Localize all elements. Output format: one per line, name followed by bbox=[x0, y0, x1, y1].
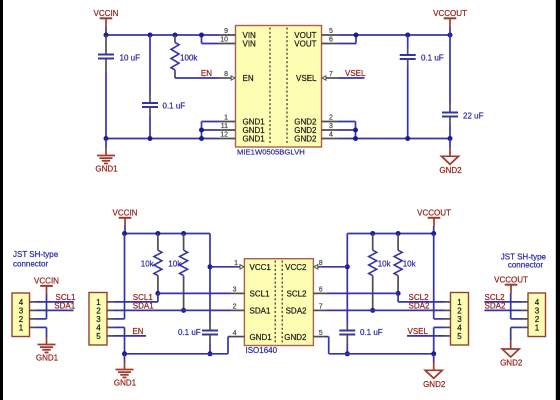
wire VCCOUT into pin3 bbox=[434, 318, 444, 320]
junction C6 gnd rail bbox=[345, 351, 350, 356]
U2 isolation dashed line right bbox=[281, 261, 283, 344]
wire SCL2 from chip bbox=[326, 292, 398, 294]
U1 pin 12 stub bbox=[219, 132, 236, 139]
U2 isolation dashed line left bbox=[274, 261, 276, 344]
J4 pin 5 stub bbox=[444, 335, 451, 337]
svg-text:VIN: VIN bbox=[243, 40, 257, 49]
svg-text:8: 8 bbox=[224, 71, 228, 78]
U1 pin name EN left y=81.2 bbox=[243, 74, 254, 83]
svg-text:6: 6 bbox=[329, 37, 333, 44]
wire VCCOUT vertical to pin3 bbox=[433, 234, 435, 319]
capacitor C5 0.1 uF bbox=[178, 322, 218, 344]
svg-text:SDA1: SDA1 bbox=[250, 307, 271, 316]
ground GND1 JST-left bbox=[36, 337, 59, 363]
J1 pin 3 stub bbox=[30, 309, 37, 311]
connector J3 JST body bbox=[528, 293, 546, 337]
capacitor C3 0.1 uF bbox=[400, 47, 444, 68]
svg-text:100k: 100k bbox=[180, 54, 198, 63]
J4 pin 1 number bbox=[457, 298, 462, 307]
junction vcc rail R2 bbox=[155, 231, 160, 236]
U1 pin 8 direction arrow bbox=[231, 76, 235, 80]
svg-text:GND1: GND1 bbox=[250, 333, 273, 342]
U2 pin 2 stub bbox=[231, 304, 244, 311]
svg-text:EN: EN bbox=[243, 74, 254, 83]
net label SDA1 mid bbox=[133, 302, 154, 311]
net label SDA2 JST bbox=[485, 302, 506, 311]
wire VSEL net bbox=[339, 77, 365, 79]
wire U1 right gnd bus vertical bbox=[355, 122, 357, 139]
U2 pin 8 arrow bbox=[314, 265, 318, 269]
U1 part name MIE1W0505BGLVH bbox=[237, 148, 305, 157]
U1 pin name VIN left y=38 bbox=[243, 31, 257, 40]
wire EN net bottom bbox=[114, 335, 147, 337]
connector J1 JST body bbox=[12, 293, 30, 337]
U1 pin 6 stub bbox=[322, 37, 339, 44]
wire SDA2 row bbox=[326, 309, 444, 311]
svg-text:10: 10 bbox=[220, 37, 228, 44]
wire VCCIN JST drop bbox=[46, 294, 48, 319]
U1 pin 5 stub bbox=[322, 28, 339, 35]
svg-text:SCL2: SCL2 bbox=[286, 290, 307, 299]
svg-text:GND2: GND2 bbox=[284, 333, 307, 342]
J4 pin 3 number bbox=[457, 315, 462, 324]
svg-text:SDA2: SDA2 bbox=[409, 302, 430, 311]
wire C4 bottom to gnd rail bbox=[449, 125, 451, 139]
U2 pin name VCC2 bbox=[285, 263, 307, 272]
U2 pin name VCC1 bbox=[250, 263, 272, 272]
U1 pin name VIN left y=46.5 bbox=[243, 40, 257, 49]
power flag VCCIN top bbox=[94, 9, 119, 27]
wire GND1 rail bbox=[106, 138, 219, 140]
resistor R1 100k bbox=[171, 35, 198, 78]
U2 pin name GND1 bbox=[250, 333, 273, 342]
wire GND1 bottom stub blue bbox=[124, 354, 126, 362]
wire chip GND1 riser bbox=[227, 337, 229, 354]
resistor R5 10k bbox=[394, 234, 416, 294]
junction vcc rail at VCCOUT drop bbox=[431, 231, 436, 236]
J1 pin 1 number bbox=[19, 323, 24, 332]
wire C5 bottom bbox=[209, 344, 211, 354]
svg-text:GND1: GND1 bbox=[114, 379, 137, 388]
J3 pin 4 number bbox=[535, 298, 540, 307]
U1 pin 1 stub bbox=[219, 115, 236, 122]
U1 pin name VOUT right y=38 bbox=[294, 31, 316, 40]
connector J2 5-pin body bbox=[89, 293, 107, 346]
U1 pin name VOUT right y=46.5 bbox=[294, 40, 316, 49]
right black border bar bbox=[556, 0, 560, 400]
svg-text:EN: EN bbox=[201, 69, 212, 78]
U1 pin 2 stub bbox=[322, 115, 339, 122]
svg-text:VCCIN: VCCIN bbox=[94, 9, 119, 18]
power flag VCCOUT bottom bbox=[417, 209, 451, 227]
wire chip GND1 horizontal bbox=[228, 336, 231, 338]
wire U1 pin3 gnd horizontal bbox=[338, 129, 356, 131]
wire J1 pin1 gnd bbox=[36, 326, 47, 328]
svg-text:SDA2: SDA2 bbox=[485, 302, 506, 311]
svg-text:0.1 uF: 0.1 uF bbox=[360, 328, 383, 337]
J3 pin 4 stub bbox=[522, 301, 529, 303]
power flag VCCIN JST-left bbox=[34, 277, 59, 295]
wire J4 pin4 gnd horizontal bbox=[434, 326, 444, 328]
ground GND1 bottom-middle bbox=[114, 362, 137, 388]
wire GND1 stub blue bbox=[105, 139, 107, 149]
power flag VCCIN bottom bbox=[113, 209, 138, 227]
U2 pin 5 stub bbox=[313, 330, 323, 337]
wire SCL2 jog vertical bbox=[397, 293, 399, 302]
svg-text:1: 1 bbox=[535, 323, 540, 332]
connector J4 5-pin body bbox=[451, 293, 469, 346]
junction C5 gnd rail bbox=[208, 351, 213, 356]
J4 pin 2 number bbox=[457, 306, 462, 315]
J1 pin 4 stub bbox=[30, 301, 37, 303]
J4 pin 5 number bbox=[457, 332, 462, 341]
J2 pin 2 stub bbox=[107, 309, 114, 311]
power flag VCCOUT JST-right bbox=[494, 275, 528, 293]
junction gnd rail C3 bbox=[405, 136, 410, 141]
junction gnd bus rail bbox=[199, 136, 204, 141]
U1 pin 9 stub bbox=[219, 28, 236, 35]
svg-text:VCCIN: VCCIN bbox=[34, 277, 59, 286]
capacitor C2 0.1 uF bbox=[142, 95, 185, 117]
wire C2 bottom to gnd rail bbox=[149, 116, 151, 139]
wire SDA1 row bbox=[114, 309, 232, 311]
resistor R4 10k bbox=[369, 234, 392, 311]
resistor R2 10k bbox=[141, 234, 162, 294]
svg-text:JST SH-type: JST SH-type bbox=[13, 250, 59, 259]
net label SCL1 mid bbox=[133, 293, 154, 302]
svg-text:VOUT: VOUT bbox=[294, 40, 316, 49]
wire right rail corner down bbox=[346, 234, 348, 322]
svg-text:SCL1: SCL1 bbox=[250, 290, 271, 299]
svg-text:1: 1 bbox=[224, 115, 228, 122]
net label SDA1 JST bbox=[54, 302, 75, 311]
svg-text:10k: 10k bbox=[378, 259, 392, 268]
ground GND1 top-left bbox=[95, 148, 118, 174]
junction right gnd bus rail bbox=[353, 136, 358, 141]
wire C3 top bbox=[407, 35, 409, 47]
wire J4 gnd vertical bbox=[433, 327, 435, 353]
J3 pin 1 number bbox=[535, 323, 540, 332]
svg-text:VSEL: VSEL bbox=[345, 69, 366, 78]
wire GND2 rail bbox=[338, 138, 450, 140]
wire U1 pin2 gnd horizontal bbox=[338, 121, 356, 123]
wire VCC rail left-bottom bbox=[125, 233, 211, 235]
J2 pin 1 number bbox=[96, 298, 101, 307]
J1 pin 4 number bbox=[19, 298, 24, 307]
J2 pin 1 stub bbox=[107, 301, 114, 303]
svg-text:VCC2: VCC2 bbox=[285, 263, 307, 272]
wire SCL1 JST bbox=[36, 301, 74, 303]
J3 pin 1 stub bbox=[522, 326, 529, 328]
U1 pin name GND2 right y=124.5 bbox=[294, 118, 317, 127]
svg-text:6: 6 bbox=[319, 287, 323, 294]
capacitor C1 10 uF bbox=[98, 35, 140, 72]
svg-text:10k: 10k bbox=[403, 259, 417, 268]
junction vcc rail R3 bbox=[181, 231, 186, 236]
J3 pin 3 number bbox=[535, 306, 540, 315]
wire chip GND2 horizontal bbox=[324, 336, 329, 338]
net label SCL2 JST bbox=[485, 293, 506, 302]
wire VSEL net bottom bbox=[407, 335, 444, 337]
wire SCL1 jog vertical bbox=[157, 293, 159, 302]
power flag VCCOUT top bbox=[433, 9, 467, 27]
wire VCCIN bottom drop bbox=[124, 226, 126, 233]
U2 pin 8 stub bbox=[318, 260, 323, 267]
wire rail corner down bbox=[209, 234, 211, 322]
U2 pin 6 stub bbox=[313, 287, 326, 294]
junction rail at C2 bbox=[148, 33, 153, 38]
svg-text:0.1 uF: 0.1 uF bbox=[421, 54, 444, 63]
svg-text:5: 5 bbox=[329, 28, 333, 35]
svg-text:7: 7 bbox=[319, 304, 323, 311]
wire GND2 bottom stub blue bbox=[433, 354, 435, 362]
svg-text:5: 5 bbox=[457, 332, 462, 341]
U1 pin 3 stub bbox=[322, 123, 339, 130]
wire U1 pin1 gnd horizontal bbox=[202, 121, 220, 123]
U1 pin name GND2 right y=133 bbox=[294, 126, 317, 135]
net label EN top bbox=[201, 69, 212, 78]
wire C1 bottom to gnd rail bbox=[105, 72, 107, 139]
ground GND2 JST-right bbox=[500, 341, 523, 368]
junction SDA2 at R4 bbox=[370, 308, 375, 313]
U1 pin name VSEL right y=81.2 bbox=[296, 74, 317, 83]
J1 pin 2 stub bbox=[30, 318, 37, 320]
net label SDA2 mid bbox=[409, 302, 430, 311]
svg-text:MIE1W0505BGLVH: MIE1W0505BGLVH bbox=[237, 148, 305, 157]
U2 pin 4 stub bbox=[231, 330, 244, 337]
wire VCCOUT bottom drop bbox=[433, 226, 435, 233]
U1 pin 10 stub bbox=[219, 37, 236, 44]
svg-text:10k: 10k bbox=[141, 259, 155, 268]
wire J2 gnd vertical bbox=[124, 327, 126, 353]
U1 pin name GND1 left y=133 bbox=[243, 126, 266, 135]
capacitor C4 22 uF bbox=[442, 104, 484, 126]
svg-text:0.1 uF: 0.1 uF bbox=[163, 102, 186, 111]
junction VCC2 row bbox=[345, 264, 350, 269]
junction gnd bus pin11 bbox=[199, 128, 204, 133]
wire VCCOUT JST drop bbox=[510, 293, 512, 319]
svg-text:9: 9 bbox=[224, 28, 228, 35]
svg-text:SDA2: SDA2 bbox=[286, 307, 307, 316]
wire SCL1 to connector bbox=[114, 301, 158, 303]
J3 pin 2 stub bbox=[522, 318, 529, 320]
U2 pin name SDA1 bbox=[250, 307, 271, 316]
svg-text:GND2: GND2 bbox=[294, 135, 317, 144]
junction SCL1 at R2 bbox=[155, 291, 160, 296]
svg-text:ISO1640: ISO1640 bbox=[246, 346, 278, 355]
svg-text:4: 4 bbox=[329, 132, 333, 139]
svg-text:3: 3 bbox=[329, 123, 333, 130]
svg-text:10k: 10k bbox=[168, 259, 182, 268]
wire J3 pin1 gnd bbox=[511, 326, 522, 328]
J3 pin 2 number bbox=[535, 315, 540, 324]
svg-text:VSEL: VSEL bbox=[408, 327, 429, 336]
net label SCL1 JST bbox=[56, 293, 77, 302]
net label SCL2 mid bbox=[409, 293, 430, 302]
wire SCL1 to chip bbox=[158, 292, 232, 294]
junction VOUT rail pin6 bbox=[354, 33, 359, 38]
resistor R3 10k bbox=[168, 234, 187, 311]
junction gnd rail GND2 symbol bbox=[448, 136, 453, 141]
svg-text:VCCOUT: VCCOUT bbox=[494, 275, 528, 284]
net label EN bottom bbox=[132, 327, 143, 336]
junction right gnd bus pin3 bbox=[353, 128, 358, 133]
left black border bar bbox=[0, 0, 3, 400]
U2 pin name SCL1 bbox=[250, 290, 271, 299]
svg-text:12: 12 bbox=[220, 132, 228, 139]
wire J2 pin4 to gnd vertical bbox=[114, 326, 125, 328]
wire VCC vertical to pin3 bbox=[124, 234, 126, 319]
wire pin6 branch vertical bbox=[355, 35, 357, 44]
wire pin10 branch vertical bbox=[201, 35, 203, 44]
ground GND2 bottom-middle bbox=[423, 362, 446, 389]
wire VOUT rail bbox=[338, 34, 450, 36]
JST left caption bbox=[13, 250, 59, 269]
wire pin10 branch horizontal bbox=[202, 43, 220, 45]
junction vcc rail at drop bbox=[122, 231, 127, 236]
U1 pin 11 stub bbox=[219, 123, 236, 130]
wire VCCIN drop bbox=[105, 27, 107, 35]
svg-text:connector: connector bbox=[13, 260, 48, 269]
wire VCC rail right-bottom bbox=[347, 233, 433, 235]
U2 pin 7 stub bbox=[313, 304, 326, 311]
wire VCC into pin3 bbox=[114, 318, 125, 320]
wire SCL2 to connector bbox=[398, 301, 444, 303]
wire U1 gnd bus vertical bbox=[201, 122, 203, 139]
wire GND2 stub blue bbox=[449, 139, 451, 149]
J2 pin 4 number bbox=[96, 323, 101, 332]
U1 pin 7 VSEL stub bbox=[325, 71, 339, 78]
junction rail pin10 branch bbox=[199, 33, 204, 38]
JST right caption bbox=[501, 253, 547, 270]
J4 pin 4 stub bbox=[444, 326, 451, 328]
J2 pin 5 number bbox=[96, 332, 101, 341]
junction VOUT rail C3 bbox=[405, 33, 410, 38]
J1 pin 3 number bbox=[19, 306, 24, 315]
U1 pin 8 EN stub bbox=[219, 71, 232, 78]
net label VSEL bottom bbox=[408, 327, 429, 336]
svg-text:EN: EN bbox=[132, 327, 143, 336]
U1 pin name GND1 left y=124.5 bbox=[243, 118, 266, 127]
U2 pin 1 arrow bbox=[240, 265, 244, 269]
J2 pin 3 number bbox=[96, 315, 101, 324]
svg-text:VCC1: VCC1 bbox=[250, 263, 272, 272]
ground GND2 top-right bbox=[439, 148, 462, 175]
wire VCC2 row bbox=[321, 266, 347, 268]
wire EN net bbox=[175, 77, 219, 79]
J2 pin 2 number bbox=[96, 306, 101, 315]
svg-text:GND1: GND1 bbox=[243, 135, 266, 144]
svg-text:5: 5 bbox=[96, 332, 101, 341]
svg-text:22 uF: 22 uF bbox=[463, 112, 484, 121]
U1 pin 4 stub bbox=[322, 132, 339, 139]
wire J3 gnd drop bbox=[510, 327, 512, 340]
wire U1 pin11 gnd horizontal bbox=[202, 129, 220, 131]
wire 22uF top bbox=[449, 35, 451, 104]
svg-text:11: 11 bbox=[221, 123, 228, 130]
isolator U2 ISO1640 body bbox=[244, 259, 313, 346]
junction gnd rail C2 bbox=[148, 136, 153, 141]
svg-text:5: 5 bbox=[319, 330, 323, 337]
junction gnd rail GND1 symbol bbox=[104, 136, 109, 141]
capacitor C6 0.1 uF bbox=[339, 322, 382, 344]
wire J3 pin2 vcc bbox=[511, 318, 522, 320]
svg-text:0.1 uF: 0.1 uF bbox=[178, 328, 201, 337]
junction SCL2 at R5 bbox=[396, 291, 401, 296]
J4 pin 2 stub bbox=[444, 309, 451, 311]
wire GND1 rail bottom bbox=[125, 353, 229, 355]
wire J1 pin2 vcc bbox=[36, 318, 47, 320]
svg-text:10 uF: 10 uF bbox=[120, 54, 141, 63]
svg-text:4: 4 bbox=[233, 330, 237, 337]
junction rail at R1 bbox=[173, 33, 178, 38]
J4 pin 4 number bbox=[457, 323, 462, 332]
U2 pin name SCL2 bbox=[286, 290, 307, 299]
svg-text:7: 7 bbox=[329, 71, 333, 78]
svg-text:SDA1: SDA1 bbox=[133, 302, 154, 311]
svg-text:2: 2 bbox=[329, 115, 333, 122]
U2 part name ISO1640 bbox=[246, 346, 278, 355]
svg-text:GND1: GND1 bbox=[95, 165, 118, 174]
J2 pin 3 stub bbox=[107, 318, 114, 320]
junction gnd rail at GND1 symbol bbox=[122, 351, 127, 356]
svg-text:connector: connector bbox=[508, 261, 543, 270]
wire SDA1 JST bbox=[36, 309, 74, 311]
J4 pin 3 stub bbox=[444, 318, 451, 320]
junction vcc rail R5 bbox=[396, 231, 401, 236]
junction SDA1 at R3 bbox=[181, 308, 186, 313]
wire VCCOUT drop bbox=[449, 27, 451, 35]
U2 pin 3 stub bbox=[231, 287, 244, 294]
svg-text:GND1: GND1 bbox=[36, 354, 59, 363]
svg-text:3: 3 bbox=[233, 287, 237, 294]
wire pin6 branch horizontal bbox=[338, 43, 356, 45]
U2 pin name GND2 bbox=[284, 333, 307, 342]
svg-text:SDA1: SDA1 bbox=[54, 302, 75, 311]
wire C6 bottom bbox=[346, 344, 348, 354]
wire GND2 rail bottom bbox=[329, 353, 434, 355]
junction VCCIN rail at C1 bbox=[104, 33, 109, 38]
U1 isolation dashed line left bbox=[269, 28, 271, 146]
wire C2 top from rail bbox=[149, 35, 151, 95]
svg-text:VSEL: VSEL bbox=[296, 74, 317, 83]
J2 pin 5 stub bbox=[107, 335, 114, 337]
U2 pin name SDA2 bbox=[286, 307, 307, 316]
wire SCL2 JST bbox=[484, 301, 521, 303]
wire J1 gnd drop bbox=[46, 327, 48, 337]
U1 pin name GND2 right y=141.5 bbox=[294, 135, 317, 144]
U1 pin name GND1 left y=141.5 bbox=[243, 135, 266, 144]
svg-text:GND2: GND2 bbox=[423, 380, 446, 389]
svg-text:VCCIN: VCCIN bbox=[113, 209, 138, 218]
wire C3 bottom to gnd rail bbox=[407, 68, 409, 139]
U2 pin 1 stub bbox=[234, 260, 240, 267]
J1 pin 1 stub bbox=[30, 326, 37, 328]
junction vcc rail R4 bbox=[370, 231, 375, 236]
J1 pin 2 number bbox=[19, 315, 24, 324]
J4 pin 1 stub bbox=[444, 301, 451, 303]
power module U1 MIE1W0505BGLVH body bbox=[236, 26, 322, 148]
junction VOUT rail VCCOUT bbox=[448, 33, 453, 38]
net label VSEL top bbox=[345, 69, 366, 78]
wire chip GND2 riser bbox=[328, 337, 330, 354]
junction VCC1 row bbox=[208, 264, 213, 269]
svg-text:GND2: GND2 bbox=[439, 166, 462, 175]
svg-text:VCCOUT: VCCOUT bbox=[417, 209, 451, 218]
J2 pin 4 stub bbox=[107, 326, 114, 328]
svg-text:2: 2 bbox=[233, 304, 237, 311]
J3 pin 3 stub bbox=[522, 309, 529, 311]
